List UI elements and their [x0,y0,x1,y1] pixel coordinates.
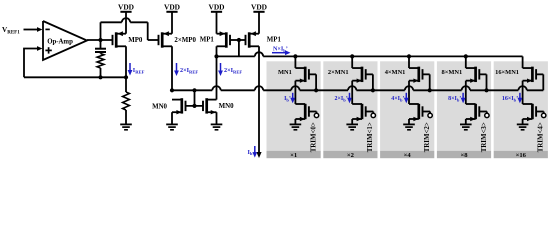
wire trim switch source cell3 [465,119,467,124]
wire MN1 cell4 gate to bus [536,74,543,90]
svg-text:TRIM<4>: TRIM<4> [538,122,545,152]
current arrow 2xIREF left [174,63,198,76]
wire 2xMP0 source [171,12,173,34]
wire trim switch source cell2 [408,119,410,124]
current arrow Ib output [248,146,258,158]
wire trim switch source cell4 [522,119,524,124]
wire trim gate terminal cell2 [423,112,433,118]
current arrow IREF [128,63,145,76]
current arrow NxIb' [272,47,291,56]
current arrow 4 k*Ib' [502,93,522,103]
wire trim gate terminal cell1 [366,112,376,118]
current arrow 0 k*Ib' [284,93,295,103]
transistor trim switch cell4 [523,104,537,121]
svg-text:Op-Amp: Op-Amp [47,38,73,45]
svg-text:N×Ib’: N×Ib’ [273,47,288,53]
net TRIM&lt;1&gt; label cell1 [367,122,374,152]
wire MP1 right drain output Ib [256,46,261,158]
svg-text:×2: ×2 [347,152,355,159]
transistor MP1 left [200,31,230,47]
wire MN0 gate interconnect [185,88,203,108]
wire MN1 cell0 gate to bus [309,74,318,92]
current arrow 2xIREF right [218,63,242,76]
svg-text:TRIM<3>: TRIM<3> [481,122,488,152]
transistor 16&#215;MN1 cell4 [495,67,536,83]
transistor MN0 left [152,98,185,114]
wire MN1 cell0 source [294,81,296,104]
power VDD rail over 2xMP0 [164,2,180,12]
wire MN1 cell1 source [351,81,353,104]
svg-text:Ib’: Ib’ [284,96,291,102]
transistor MP0 [113,31,143,47]
wire MN1 cell0 drain [293,54,297,68]
svg-text:TRIM<1>: TRIM<1> [367,122,374,152]
wire gate bus to 2xMP0 gate [101,18,159,40]
transistor 8&#215;MN1 cell3 [442,67,480,83]
ground cell4 [517,124,529,129]
svg-text:16×Ib’: 16×Ib’ [502,96,518,102]
power VDD rail over MP1 right [251,2,267,12]
wire MN0 left source to ground [171,112,173,124]
wire MP1 left source [216,12,218,34]
wire trim switch source cell0 [294,119,296,124]
wire MN1 cell1 drain [350,54,354,68]
ground cell3 [460,124,472,129]
trim cell 3 background [437,61,491,159]
wire MN1 gate bus [170,86,543,92]
transistor 2&#215;MN1 cell1 [328,67,366,83]
wire VREF1 to op-amp inverting input [24,27,43,32]
svg-text:TRIM<2>: TRIM<2> [424,122,431,152]
resistor R1 [123,77,130,124]
svg-text:MP1: MP1 [200,36,215,43]
svg-text:16×MN1: 16×MN1 [495,69,519,76]
ground cell1 [346,124,358,129]
wire MN1 cell3 drain [464,54,468,68]
wire MN1 cell2 source [408,81,410,104]
current arrow 1 k*Ib' [334,93,351,103]
svg-text:2×MP0: 2×MP0 [174,37,196,44]
node compensation tap [98,75,102,79]
transistor MP1 right [246,31,282,47]
current arrow 3 k*Ib' [448,93,465,103]
svg-text:8×MN1: 8×MN1 [442,69,463,76]
wire MP0 source [125,12,127,34]
wire 2xMP0 drain [171,46,173,90]
svg-text:2×MN1: 2×MN1 [328,69,349,76]
wire MN1 cell4 drain [522,56,524,68]
svg-text:TRIM<0>: TRIM<0> [310,122,317,152]
svg-text:4×MN1: 4×MN1 [385,69,406,76]
transistor MN1 cell0 [278,67,309,83]
wire MN1 cell2 drain [407,54,411,68]
net TRIM&lt;2&gt; label cell2 [424,122,431,152]
transistor trim switch cell1 [352,104,366,121]
svg-text:MP0: MP0 [128,37,143,44]
wire MP1 diode node rail (NxIb') [217,52,523,56]
svg-text:VDD: VDD [164,2,180,11]
node op-amp output junction [98,38,102,42]
wire trim gate terminal cell4 [536,112,546,118]
transistor 4&#215;MN1 cell2 [385,67,423,83]
trim cell 4 background [494,61,548,159]
ground cell2 [403,124,415,129]
transistor trim switch cell3 [466,104,480,121]
svg-text:2×Ib’: 2×Ib’ [334,96,347,102]
svg-text:MN0: MN0 [219,103,234,110]
wire op-amp output to MP0 gate [87,39,112,41]
wire MN1 cell1 gate to bus [366,74,375,92]
wire MN1 cell3 gate to bus [479,74,488,92]
svg-text:VDD: VDD [251,2,267,11]
resistor Rc [97,54,104,78]
svg-text:×4: ×4 [404,152,412,159]
svg-text:MP1: MP1 [267,36,282,43]
svg-text:×8: ×8 [460,152,468,159]
wire trim gate terminal cell3 [479,112,489,118]
svg-text:×16: ×16 [516,152,527,159]
wire trim gate terminal cell0 [309,112,319,118]
power VDD rail over MP1 left [208,2,224,12]
net VREF1 input label [2,26,20,35]
svg-text:VDD: VDD [118,2,134,11]
svg-text:MN1: MN1 [278,69,292,76]
op-amp U1 [43,21,87,60]
wire MP1 right source [258,12,260,34]
transistor trim switch cell0 [295,104,309,121]
svg-text:4×Ib’: 4×Ib’ [391,96,404,102]
power VDD rail over MP0 [118,2,134,12]
net TRIM&lt;3&gt; label cell3 [481,122,488,152]
ground under R1 [120,124,132,129]
transistor trim switch cell2 [409,104,423,121]
wire trim switch source cell1 [351,119,353,124]
trim cell 2 background [380,61,434,159]
trim cell 1 background [323,61,377,159]
svg-text:8×Ib’: 8×Ib’ [448,96,461,102]
net TRIM&lt;0&gt; label cell0 [310,122,317,152]
wire MN1 cell2 gate to bus [423,74,432,92]
current arrow 2 k*Ib' [391,93,408,103]
wire MN1 cell3 source [465,81,467,104]
ground under MN0 left [166,124,178,129]
wire MN0 right source to ground [216,112,218,124]
capacitor Cc [95,40,106,54]
trim cell 0 background [267,61,321,159]
net TRIM&lt;4&gt; label cell4 [538,122,545,152]
wire MP1 left drain to MN0 right drain [214,46,218,99]
transistor 2xMP0 [159,31,197,47]
transistor MN0 right [203,98,234,114]
wire MP1 gate interconnect [230,38,245,57]
wire feedback to op-amp non-inverting input [24,46,43,77]
wire MN1 cell4 source [522,81,524,104]
wire feedback rail [24,76,126,78]
ground under MN0 right [211,124,223,129]
svg-text:VDD: VDD [208,2,224,11]
wire MP0 drain to IREF node [124,46,128,79]
svg-text:MN0: MN0 [152,103,167,110]
svg-text:×1: ×1 [290,152,297,159]
ground cell0 [290,124,302,129]
